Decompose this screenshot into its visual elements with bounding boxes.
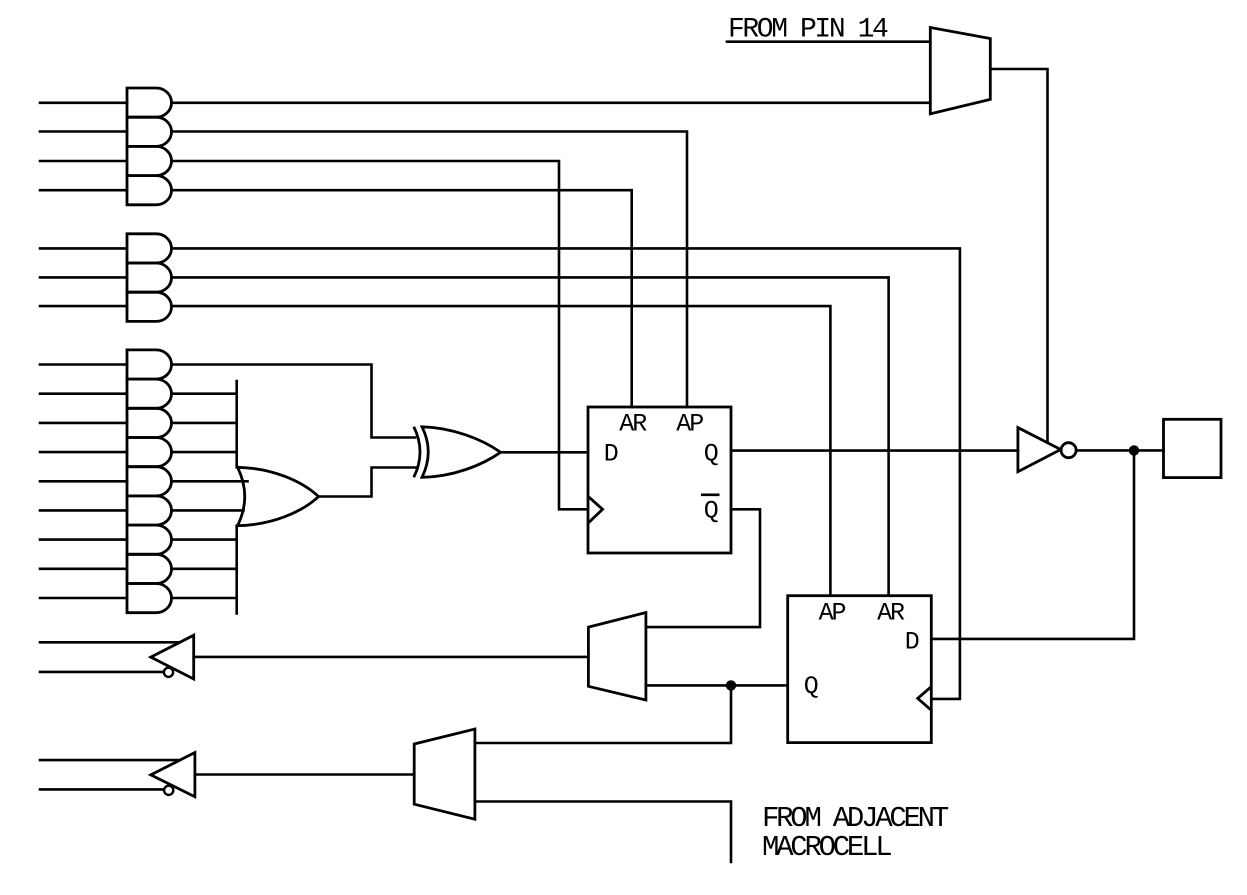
svg-text:Q: Q [804, 672, 818, 701]
svg-text:Q: Q [704, 497, 718, 526]
svg-text:AR: AR [877, 599, 905, 628]
svg-text:D: D [905, 627, 919, 656]
svg-text:D: D [604, 440, 618, 469]
svg-text:FROM ADJACENT: FROM ADJACENT [762, 802, 949, 835]
svg-text:AP: AP [819, 599, 846, 628]
svg-text:AR: AR [619, 409, 647, 438]
svg-text:AP: AP [676, 409, 703, 438]
svg-text:FROM PIN 14: FROM PIN 14 [728, 15, 888, 46]
svg-text:Q: Q [704, 440, 718, 469]
svg-text:MACROCELL: MACROCELL [762, 831, 891, 864]
